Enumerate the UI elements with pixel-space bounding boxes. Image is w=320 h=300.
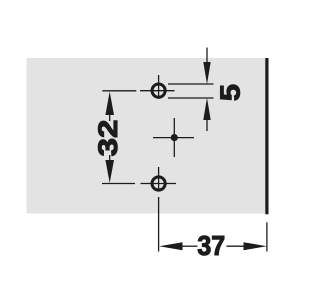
center point horizontal crosshair xyxy=(153,137,194,139)
dimension 5: lower leader line xyxy=(206,119,208,131)
center point (hinge axis reference) xyxy=(171,134,178,141)
dimension 5: upper dimension line xyxy=(168,83,214,85)
dimension 32: top tick line xyxy=(102,90,136,92)
hole H1 (top screw hole) xyxy=(152,84,165,97)
extension line from hole H2 down to 37 dimension xyxy=(158,197,160,252)
hole H1 vertical centerline xyxy=(158,75,160,99)
hole H2 horizontal centerline xyxy=(141,183,177,185)
dimension 32: upper stub line xyxy=(109,114,111,121)
dimension 37: right line segment xyxy=(227,245,245,247)
plate right edge (thick) xyxy=(265,58,268,214)
svg-text:5: 5 xyxy=(215,84,246,101)
mounting plate xyxy=(27,58,269,214)
dimension 37: right arrow xyxy=(244,242,267,250)
hole H2 vertical centerline xyxy=(158,167,160,192)
dimension 32: upper arrow xyxy=(105,92,114,116)
dimension 5: lower dimension line xyxy=(168,97,214,99)
hole H2 (bottom screw hole) xyxy=(152,177,165,190)
center point vertical crosshair xyxy=(173,118,175,157)
dimension 5: lower arrow xyxy=(203,98,210,120)
dimension 5: upper leader line xyxy=(206,48,208,64)
dimension 32: lower arrow xyxy=(105,160,114,183)
dimension 37: left arrow xyxy=(159,242,182,250)
dimension 32: bottom tick line xyxy=(102,183,135,185)
hole H1 horizontal centerline xyxy=(140,90,175,92)
dimension 37: left line segment xyxy=(182,245,198,247)
dimension 5: upper arrow xyxy=(203,62,210,84)
dimension 37: right extension line xyxy=(266,222,268,251)
svg-text:37: 37 xyxy=(197,230,225,262)
dimension 32: lower stub line xyxy=(109,155,111,161)
svg-text:32: 32 xyxy=(94,120,124,157)
